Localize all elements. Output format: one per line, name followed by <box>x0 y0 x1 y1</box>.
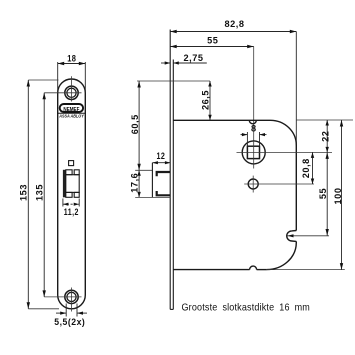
latch leaders (side view) <box>135 170 170 197</box>
latch bolt front view <box>63 170 79 198</box>
svg-text:18: 18 <box>67 53 76 63</box>
faceplate outline (front view, stadium shape) <box>58 79 86 309</box>
svg-text:NEMEF: NEMEF <box>63 107 79 113</box>
reference line plate top (side view) <box>137 80 210 82</box>
dimension 2,75 (strip thickness) <box>161 53 207 65</box>
svg-text:8: 8 <box>251 124 257 134</box>
svg-text:2,75: 2,75 <box>184 53 204 63</box>
edge notch leader <box>288 234 330 237</box>
dimension 55 (strip to spindle) <box>170 36 254 142</box>
faceplate strip (side view) <box>170 30 173 310</box>
svg-text:55: 55 <box>318 188 328 199</box>
dimension 22 <box>320 120 330 152</box>
spindle center lines <box>237 141 333 169</box>
fixing hole (small circle) <box>248 179 258 189</box>
svg-text:22: 22 <box>320 131 330 142</box>
svg-text:12: 12 <box>157 151 166 161</box>
svg-text:153: 153 <box>18 184 28 201</box>
bottom screw hole <box>65 290 78 303</box>
dimension 153 (plate height) <box>18 80 59 309</box>
top screw hole <box>65 86 78 99</box>
top hole center lines <box>44 76 81 101</box>
privacy pin square <box>69 161 74 166</box>
svg-text:60,5: 60,5 <box>130 114 140 134</box>
dimension 8 (spindle square) <box>241 124 267 147</box>
case top right leader <box>296 119 353 121</box>
svg-text:ASSA ABLOY: ASSA ABLOY <box>58 113 84 118</box>
dimension 20,8 <box>301 152 314 184</box>
svg-text:5,5(2x): 5,5(2x) <box>54 317 85 327</box>
svg-text:55: 55 <box>207 36 218 46</box>
latch bolt side view <box>152 163 170 198</box>
svg-text:17,6: 17,6 <box>129 173 139 193</box>
spindle follower (circle + square) <box>242 141 265 164</box>
svg-text:26,5: 26,5 <box>201 90 211 110</box>
case bottom leader <box>267 269 345 271</box>
bottom hole center lines <box>44 288 81 312</box>
dimension 100 <box>333 120 343 270</box>
dimension 11,2 (latch width) <box>63 199 79 218</box>
dimension 55 (right side) <box>318 152 329 235</box>
dimension 26,5 <box>201 81 212 120</box>
dimension 60,5 <box>130 81 141 170</box>
svg-text:82,8: 82,8 <box>224 19 244 29</box>
dimension 135 (hole centers) <box>34 93 46 297</box>
svg-text:135: 135 <box>34 184 44 201</box>
svg-text:100: 100 <box>333 188 343 205</box>
dimension 17,6 <box>129 170 141 197</box>
svg-text:11,2: 11,2 <box>64 207 79 217</box>
lock case outline (side view) <box>173 120 296 269</box>
dimension 82,8 (strip to case right) <box>170 19 296 145</box>
plate seam line <box>58 112 86 114</box>
dimension 18 (plate width) <box>58 53 86 93</box>
NEMEF logo <box>60 104 83 113</box>
svg-text:20,8: 20,8 <box>301 158 311 178</box>
dimension 5,5(2x) <box>54 304 87 328</box>
dimension 12 (latch protrusion) <box>152 151 170 164</box>
fixing hole center lines <box>244 176 314 193</box>
svg-text:Grootste slotkastdikte 16 mm: Grootste slotkastdikte 16 mm <box>182 302 311 313</box>
